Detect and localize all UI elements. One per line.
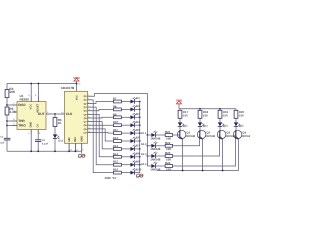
wire bottom rail <box>7 150 82 152</box>
wire Q3 emitter <box>222 139 224 170</box>
svg-text:R23: R23 <box>165 151 171 155</box>
wire C2 to rail <box>37 142 39 152</box>
wire Q4 emitter <box>238 139 240 170</box>
wire to R6 <box>54 114 56 118</box>
wire R6 to D11 <box>54 127 56 135</box>
wire VDD to rail <box>178 104 180 109</box>
svg-text:CO: CO <box>83 131 87 134</box>
svg-text:VDD: VDD <box>176 99 183 103</box>
svg-text:2: 2 <box>88 97 89 100</box>
wire R10 to D4 <box>121 124 130 126</box>
pin 7 Q3 <box>88 106 92 108</box>
svg-text:11: 11 <box>88 126 90 129</box>
svg-text:1: 1 <box>88 112 89 115</box>
wire 555 GND to rail <box>30 135 32 152</box>
wire rail to R20 <box>235 109 237 111</box>
wire OUT to CLK <box>51 113 61 115</box>
pin 3 OUT <box>46 113 51 115</box>
junction C2 rail <box>37 150 39 152</box>
svg-text:10: 10 <box>88 108 90 111</box>
LED D4 <box>130 121 136 127</box>
wire Q7 to R13 <box>92 122 114 149</box>
resistor R11 <box>113 132 121 135</box>
svg-text:DISC: DISC <box>18 103 26 107</box>
wire rail to R17 <box>179 109 181 111</box>
pin 3 Q0 <box>88 95 92 97</box>
wire D10 cathode <box>135 172 140 174</box>
pin 9 Q8 <box>88 124 92 126</box>
svg-text:R12: R12 <box>113 136 119 140</box>
LED D13 <box>198 122 205 127</box>
svg-text:5: 5 <box>88 115 89 118</box>
svg-text:5: 5 <box>39 132 41 135</box>
svg-text:12: 12 <box>88 130 90 133</box>
wire D4 cathode <box>135 124 140 126</box>
wire R19 to LED <box>219 118 221 122</box>
wire Q9 to R12 <box>92 129 114 141</box>
power VDD transistors <box>176 99 183 104</box>
wire R13 to D7 <box>121 148 130 150</box>
wire base Q1 <box>173 134 180 136</box>
resistor R20 <box>234 110 238 118</box>
wire LED to Q1 collector <box>179 127 181 130</box>
LED D11 <box>53 134 60 139</box>
svg-text:R10: R10 <box>113 120 119 124</box>
resistor R17 <box>178 110 182 118</box>
svg-text:D11: D11 <box>58 140 63 143</box>
resistor R18 <box>198 110 202 118</box>
svg-text:RESET: RESET <box>36 103 39 112</box>
svg-text:9: 9 <box>88 123 89 126</box>
svg-text:BC546: BC546 <box>242 134 250 138</box>
wire to THR <box>7 120 12 122</box>
svg-text:D14: D14 <box>223 124 228 127</box>
svg-text:D15: D15 <box>239 124 244 127</box>
svg-text:VCC: VCC <box>30 104 33 110</box>
wire LED to Q4 collector <box>235 127 237 130</box>
svg-text:R8: R8 <box>113 104 117 108</box>
junction cathode D7 <box>139 148 141 150</box>
resistor R8 <box>113 108 121 111</box>
resistor R10 <box>113 124 121 127</box>
wire Q3 to R15 <box>92 107 114 165</box>
junction R4-R5/DISC <box>6 104 8 106</box>
wire Q2 emitter <box>202 139 204 170</box>
wire CV to C2 <box>37 135 39 140</box>
svg-text:R15: R15 <box>113 160 119 164</box>
svg-text:NE555: NE555 <box>20 98 30 102</box>
junction cathode D8 <box>139 156 141 158</box>
svg-text:C2: C2 <box>42 139 46 142</box>
wire D7 cathode <box>135 148 140 150</box>
wire Q6 to R9 <box>92 116 114 119</box>
wire VCC top rail <box>7 83 77 85</box>
wire Q1 to R16 <box>92 100 114 173</box>
wire D3.3 to R23 <box>156 155 166 157</box>
pin 6 THR <box>12 120 17 122</box>
svg-text:BC546: BC546 <box>206 134 215 138</box>
wire bus to D2.2 <box>147 145 151 147</box>
wire R17 to LED <box>179 118 181 122</box>
svg-text:CV: CV <box>36 124 39 128</box>
svg-text:1N4148: 1N4148 <box>150 157 161 161</box>
wire D3 cathode <box>135 116 140 118</box>
svg-text:330E *10: 330E *10 <box>105 176 117 180</box>
wire R12 to D6 <box>121 140 130 142</box>
svg-text:R14: R14 <box>113 152 119 156</box>
wire Q0 to R11 <box>92 132 114 135</box>
svg-text:10K: 10K <box>9 90 16 94</box>
svg-text:1: 1 <box>28 132 30 135</box>
svg-text:TRIG: TRIG <box>18 124 26 128</box>
diode D3.3 <box>151 152 157 158</box>
resistor R14 <box>113 155 121 158</box>
wire Q1 emitter <box>182 139 184 170</box>
resistor R21 <box>165 134 172 137</box>
wire R14 to D8 <box>121 156 130 158</box>
diode D4.4 <box>151 162 157 168</box>
pin 2 TRIG <box>12 125 17 127</box>
resistor R19 <box>218 110 222 118</box>
junction cathode D9 <box>139 164 141 166</box>
svg-text:15: 15 <box>70 148 72 151</box>
LED D9 <box>130 161 136 167</box>
wire LED to Q3 collector <box>219 127 221 130</box>
pin 1 GND <box>30 130 32 135</box>
wire Q5 to R14 <box>92 114 114 156</box>
svg-text:GND: GND <box>81 136 84 142</box>
pin 6 Q7 <box>88 121 92 123</box>
svg-text:7: 7 <box>88 104 89 107</box>
resistor R22 <box>165 144 172 147</box>
junction OUT branch <box>54 113 56 115</box>
wire R20 to LED <box>235 118 237 122</box>
wire D9 cathode <box>135 164 140 166</box>
resistor R16 <box>113 171 121 174</box>
wire R9 to D3 <box>121 116 130 118</box>
wire LED to Q2 collector <box>199 127 201 130</box>
pin 11 Q9 <box>88 128 92 130</box>
svg-text:D10: D10 <box>136 167 142 171</box>
wire C1 to ground rail <box>6 140 8 151</box>
junction MR rail <box>68 150 70 152</box>
svg-text:R16: R16 <box>113 168 119 172</box>
svg-text:R7: R7 <box>113 97 117 101</box>
pin 15 MR <box>68 143 70 151</box>
LED D3 <box>130 113 136 119</box>
wire D8 cathode <box>135 156 140 158</box>
wire D2.2 to R22 <box>156 145 166 147</box>
ground LED bank <box>136 174 143 177</box>
transistor Q3 <box>217 130 226 140</box>
pin 2 Q1 <box>88 99 92 101</box>
junction TRIG <box>6 125 8 127</box>
svg-text:R13: R13 <box>113 144 119 148</box>
transistor Q4 <box>233 130 242 140</box>
resistor R7 <box>113 100 121 103</box>
wire base Q3 <box>173 134 220 156</box>
svg-text:16: 16 <box>78 83 80 86</box>
svg-text:4: 4 <box>35 94 37 97</box>
pin 7 DISC <box>12 104 17 106</box>
svg-text:BC546: BC546 <box>186 134 195 138</box>
junction emitter Q3 <box>222 170 224 172</box>
op-amp timer U1 NE555 <box>17 94 46 130</box>
svg-text:D2.2: D2.2 <box>141 143 147 146</box>
wire rail to R19 <box>219 109 221 111</box>
capacitor C2 <box>35 140 41 142</box>
resistor R12 <box>113 140 121 143</box>
wire VDD to 4017 VCC <box>76 81 78 91</box>
pin 12 CO <box>88 132 92 134</box>
wire rail to R18 <box>199 109 201 111</box>
svg-text:10K: 10K <box>166 136 172 140</box>
wire R4 to R5 <box>6 98 8 108</box>
junction rail VDD <box>76 83 78 85</box>
svg-text:THR: THR <box>18 119 25 123</box>
svg-text:VCC: VCC <box>76 95 79 100</box>
junction D11 rail <box>54 150 56 152</box>
wire Q4 to R8 <box>92 109 114 110</box>
wire Q8 to R10 <box>92 124 114 126</box>
svg-text:1uF: 1uF <box>0 142 5 145</box>
svg-text:100: 100 <box>239 114 244 118</box>
wire anode bus <box>146 135 148 166</box>
diode D1.1 <box>151 131 157 137</box>
wire D5 cathode <box>135 132 140 134</box>
wire to TRIG <box>7 125 12 127</box>
wire D4.4 to R24 <box>156 165 166 167</box>
pin 5 CV <box>37 130 39 135</box>
LED D8 <box>130 153 136 159</box>
wire R5 to C1 <box>6 115 8 138</box>
pin 1 Q5 <box>88 113 92 115</box>
LED D7 <box>130 145 136 151</box>
capacitor C1 <box>4 138 11 140</box>
svg-text:100: 100 <box>183 114 188 118</box>
transistor Q1 <box>177 130 186 140</box>
svg-text:VDD: VDD <box>73 76 80 80</box>
wire emitter bus <box>157 170 239 172</box>
junction cathode D1 <box>139 101 141 103</box>
wire D2 cathode <box>135 108 140 110</box>
svg-text:R22: R22 <box>165 141 171 145</box>
wire R15 to D9 <box>121 164 130 166</box>
wire R18 to LED <box>199 118 201 122</box>
junction cathode D4 <box>139 124 141 126</box>
wire to DISC <box>7 104 12 106</box>
IC U2 CD4017 <box>61 86 88 143</box>
resistor R9 <box>113 116 121 119</box>
pin 5 Q6 <box>88 117 92 119</box>
pin 8 VCC <box>30 97 32 103</box>
svg-text:CLK: CLK <box>66 112 73 116</box>
svg-text:MR: MR <box>68 137 71 141</box>
wire rail to R4 <box>6 84 8 90</box>
wire D1 cathode <box>135 101 140 103</box>
wire cathode bus <box>139 102 141 174</box>
svg-text:1N4148: 1N4148 <box>150 136 161 140</box>
pin 13 INH <box>74 143 76 151</box>
LED D14 <box>218 122 225 127</box>
svg-text:D12: D12 <box>183 124 188 127</box>
svg-text:100: 100 <box>223 114 228 118</box>
junction bus D2.2 <box>147 145 149 147</box>
wire Q2 to R7 <box>92 102 114 104</box>
LED D12 <box>178 122 185 127</box>
junction INH rail <box>75 150 77 152</box>
svg-text:100: 100 <box>203 114 208 118</box>
pin 8 GND <box>81 143 83 151</box>
LED D10 <box>130 168 136 174</box>
junction bus D3.3 <box>147 155 149 157</box>
junction cathode D6 <box>139 140 141 142</box>
svg-text:8: 8 <box>28 94 30 97</box>
svg-text:0.1uF: 0.1uF <box>42 143 49 146</box>
svg-text:6: 6 <box>88 119 89 122</box>
junction THR <box>6 120 8 122</box>
power VDD U2 <box>73 76 80 81</box>
junction rail VCC <box>30 83 32 85</box>
junction rail RESET <box>38 83 40 85</box>
pin 14 CLK <box>61 113 65 115</box>
resistor R13 <box>113 148 121 151</box>
wire collector rail <box>179 108 236 110</box>
resistor R4 <box>5 90 9 98</box>
svg-text:C1: C1 <box>0 136 4 139</box>
resistor R23 <box>165 155 172 158</box>
wire bus to D4.4 <box>147 165 151 167</box>
svg-text:D13: D13 <box>203 124 208 127</box>
LED D15 <box>234 122 241 127</box>
junction cathode D3 <box>139 116 141 118</box>
svg-text:8: 8 <box>83 148 84 151</box>
svg-text:D3.3: D3.3 <box>141 153 147 156</box>
pin 4 RESET <box>37 97 39 103</box>
svg-text:3: 3 <box>88 94 89 97</box>
junction rail R19 <box>219 108 221 110</box>
pin 4 Q2 <box>88 102 92 104</box>
junction emitter Q2 <box>202 170 204 172</box>
wire output to diode bank <box>92 94 148 136</box>
LED D1 <box>130 97 136 103</box>
diode D2.2 <box>151 142 157 148</box>
svg-text:D1.1: D1.1 <box>141 132 147 135</box>
junction GND rail <box>30 150 32 152</box>
svg-text:D4.4: D4.4 <box>141 163 147 166</box>
wire rail to 555 VCC <box>30 84 32 97</box>
wire base Q2 <box>173 134 200 145</box>
svg-text:13: 13 <box>76 148 78 151</box>
resistor R6 <box>53 118 57 127</box>
junction bus D1.1 <box>147 134 149 136</box>
wire D11 to rail <box>54 139 56 151</box>
wire to ground <box>81 151 83 153</box>
transistor Q2 <box>197 130 206 140</box>
wire bus to D1.1 <box>147 134 151 136</box>
svg-text:GND: GND <box>30 122 33 128</box>
resistor R5 <box>5 107 9 115</box>
junction emitter Q1 <box>182 170 184 172</box>
wire R7 to D1 <box>121 101 130 103</box>
LED D2 <box>130 105 136 111</box>
LED D6 <box>130 137 136 143</box>
svg-text:R24: R24 <box>165 161 171 165</box>
svg-text:INH: INH <box>74 137 77 142</box>
svg-text:1N4148: 1N4148 <box>150 147 161 151</box>
junction cathode D5 <box>139 132 141 134</box>
wire D1.1 to R21 <box>156 134 166 136</box>
LED D5 <box>130 129 136 135</box>
wire base Q4 <box>173 134 236 166</box>
resistor R15 <box>113 163 121 166</box>
wire rail to 555 RESET <box>37 84 39 97</box>
svg-text:R21: R21 <box>165 130 171 134</box>
pin 10 Q4 <box>88 110 92 112</box>
svg-text:CD4017B: CD4017B <box>61 86 75 90</box>
wire R8 to D2 <box>121 108 130 110</box>
wire R11 to D5 <box>121 132 130 134</box>
wire D6 cathode <box>135 140 140 142</box>
junction rail R18 <box>199 108 201 110</box>
svg-text:1K: 1K <box>58 121 63 125</box>
resistor R24 <box>165 165 172 168</box>
svg-text:R9: R9 <box>113 112 117 116</box>
ground U2 <box>78 154 85 157</box>
wire bus to D3.3 <box>147 155 151 157</box>
svg-text:R11: R11 <box>113 128 118 132</box>
wire R16 to D10 <box>121 172 130 174</box>
junction cathode D2 <box>139 109 141 111</box>
svg-text:4: 4 <box>88 101 89 104</box>
svg-text:D1: D1 <box>136 96 140 100</box>
svg-text:3.3M: 3.3M <box>9 110 16 114</box>
